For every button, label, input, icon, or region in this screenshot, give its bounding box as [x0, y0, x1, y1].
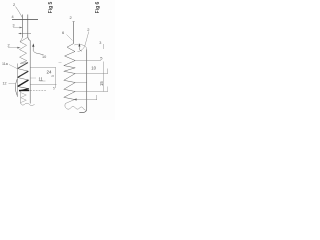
svg-text:Fig 5: Fig 5	[48, 1, 54, 13]
svg-text:11: 11	[39, 77, 44, 82]
svg-text:5: 5	[53, 87, 55, 91]
svg-text:Fig 6: Fig 6	[95, 1, 101, 13]
svg-text:2: 2	[8, 44, 10, 48]
svg-text:12: 12	[3, 82, 7, 86]
svg-text:10: 10	[91, 65, 96, 70]
svg-text:11a: 11a	[2, 62, 8, 66]
svg-text:10: 10	[42, 55, 46, 59]
svg-text:3: 3	[13, 24, 15, 28]
svg-text:4: 4	[12, 15, 14, 19]
svg-text:5: 5	[51, 75, 55, 77]
svg-text:15: 15	[99, 81, 104, 86]
svg-text:3: 3	[99, 41, 101, 45]
svg-text:24: 24	[47, 69, 53, 74]
